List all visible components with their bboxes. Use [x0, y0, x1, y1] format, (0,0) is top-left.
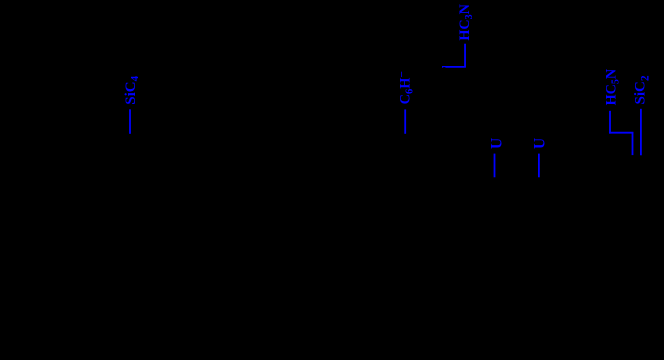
tick line under C6H- — [404, 109, 406, 133]
tick line under second U — [538, 154, 540, 178]
elbow line from HC3N: vertical — [464, 44, 466, 67]
elbow line from HC5N: vertical lower — [632, 132, 634, 155]
elbow line from HC3N: horizontal — [442, 66, 466, 68]
elbow line from HC5N: vertical upper — [609, 111, 611, 134]
svg-text:U: U — [488, 138, 505, 149]
svg-text:HC3N: HC3N — [457, 3, 475, 40]
elbow line from HC5N: horizontal — [609, 132, 633, 134]
tick line under first U — [494, 154, 496, 178]
notch at left end of HC3N horizontal — [443, 66, 445, 69]
svg-text:HC5N: HC5N — [603, 68, 621, 105]
tick line under SiC2 — [640, 109, 642, 156]
tick line under SiC4 — [129, 109, 131, 134]
svg-text:U: U — [531, 138, 548, 149]
